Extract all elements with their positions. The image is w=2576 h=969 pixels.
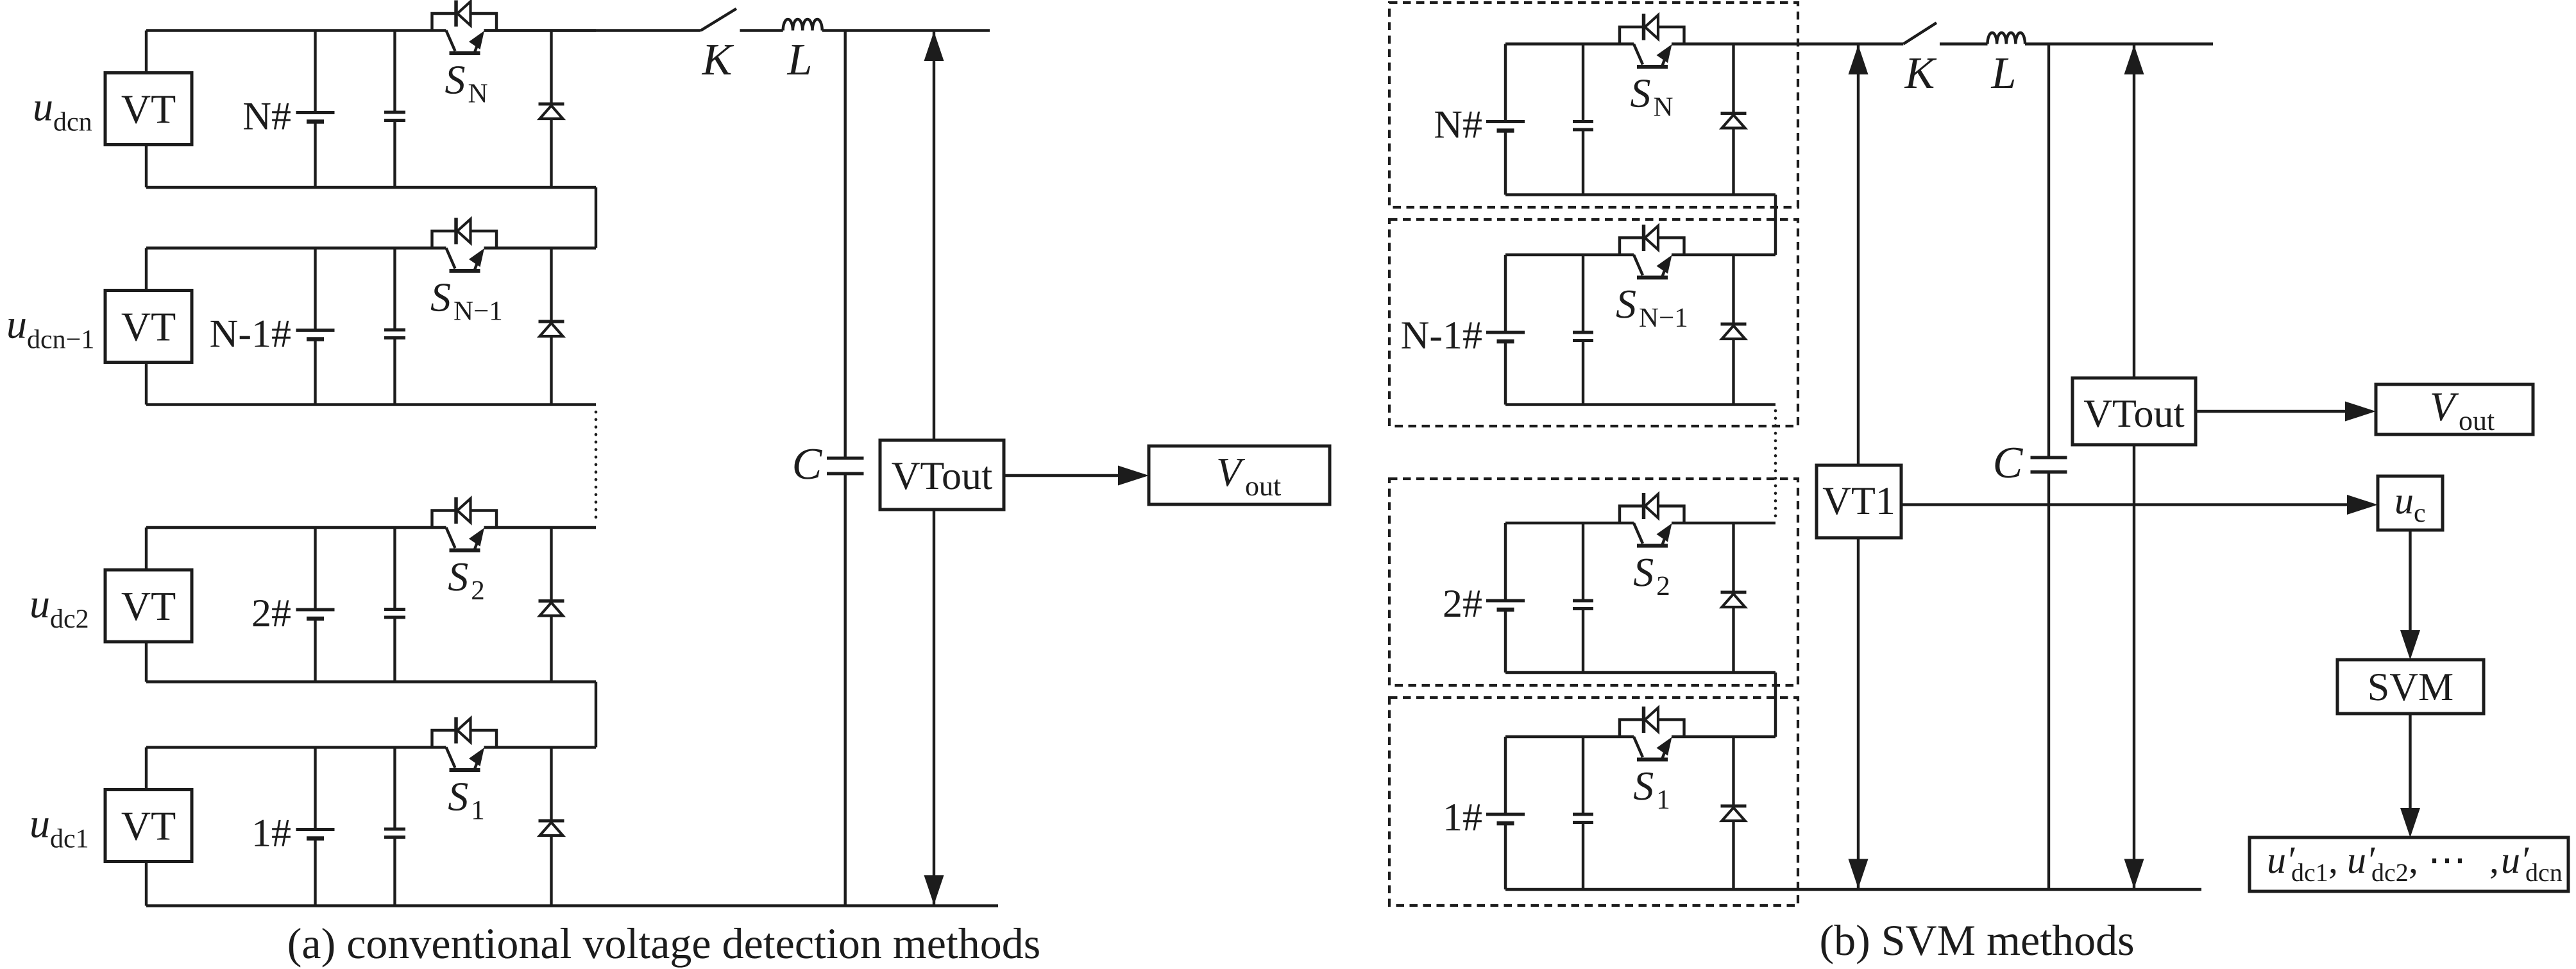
- svg-text:VTout: VTout: [2083, 392, 2185, 436]
- svg-text:S: S: [448, 554, 468, 599]
- svg-text:VTout: VTout: [892, 454, 993, 498]
- svg-text:K: K: [702, 35, 734, 85]
- svg-text:1: 1: [471, 796, 485, 826]
- svg-text:N: N: [468, 79, 488, 109]
- svg-text:(b) SVM methods: (b) SVM methods: [1819, 916, 2134, 965]
- svg-text:S: S: [448, 774, 468, 819]
- svg-text:u: u: [2394, 479, 2414, 522]
- svg-text:dc2: dc2: [2371, 858, 2409, 887]
- svg-text:S: S: [1616, 281, 1636, 327]
- svg-text:1#: 1#: [1443, 796, 1482, 839]
- svg-text:out: out: [1245, 470, 1281, 502]
- svg-text:dcn: dcn: [2525, 858, 2563, 887]
- svg-text:,: ,: [2409, 839, 2418, 881]
- svg-text:VT: VT: [121, 583, 176, 629]
- svg-text:S: S: [1631, 71, 1651, 116]
- svg-text:S: S: [445, 57, 466, 103]
- svg-text:out: out: [2459, 405, 2495, 436]
- svg-text:C: C: [1993, 438, 2024, 488]
- svg-text:(a) conventional voltage detec: (a) conventional voltage detection metho…: [287, 919, 1041, 968]
- svg-text:VT: VT: [121, 304, 176, 350]
- svg-text:c: c: [2414, 499, 2426, 528]
- svg-text:SVM: SVM: [2368, 665, 2453, 709]
- svg-text:1: 1: [1656, 785, 1670, 815]
- svg-text:N#: N#: [1434, 103, 1482, 147]
- svg-text:N#: N#: [242, 95, 291, 139]
- svg-text:VT: VT: [121, 87, 176, 132]
- svg-text:C: C: [792, 440, 823, 489]
- svg-text:N: N: [1654, 92, 1674, 123]
- svg-text:N−1: N−1: [453, 296, 503, 327]
- svg-text:N-1#: N-1#: [1401, 314, 1482, 357]
- svg-text:S: S: [430, 275, 451, 320]
- svg-text:VT: VT: [121, 803, 176, 849]
- svg-text:S: S: [1633, 549, 1654, 595]
- svg-text:K: K: [1904, 49, 1937, 98]
- svg-text:1#: 1#: [251, 812, 291, 855]
- svg-text:VT1: VT1: [1822, 479, 1895, 523]
- svg-text:2: 2: [471, 576, 485, 606]
- svg-text:2: 2: [1656, 571, 1670, 601]
- svg-text:N−1: N−1: [1639, 303, 1688, 333]
- svg-text:2#: 2#: [251, 592, 291, 635]
- svg-text:dc1: dc1: [2291, 858, 2328, 887]
- svg-text:L: L: [1991, 49, 2017, 98]
- svg-text:2#: 2#: [1443, 582, 1482, 626]
- svg-text:⋯: ⋯: [2428, 839, 2466, 881]
- svg-text:,: ,: [2328, 839, 2338, 881]
- svg-text:N-1#: N-1#: [210, 313, 291, 356]
- svg-text:S: S: [1633, 763, 1654, 809]
- svg-text:,: ,: [2489, 839, 2499, 881]
- svg-text:L: L: [787, 35, 813, 85]
